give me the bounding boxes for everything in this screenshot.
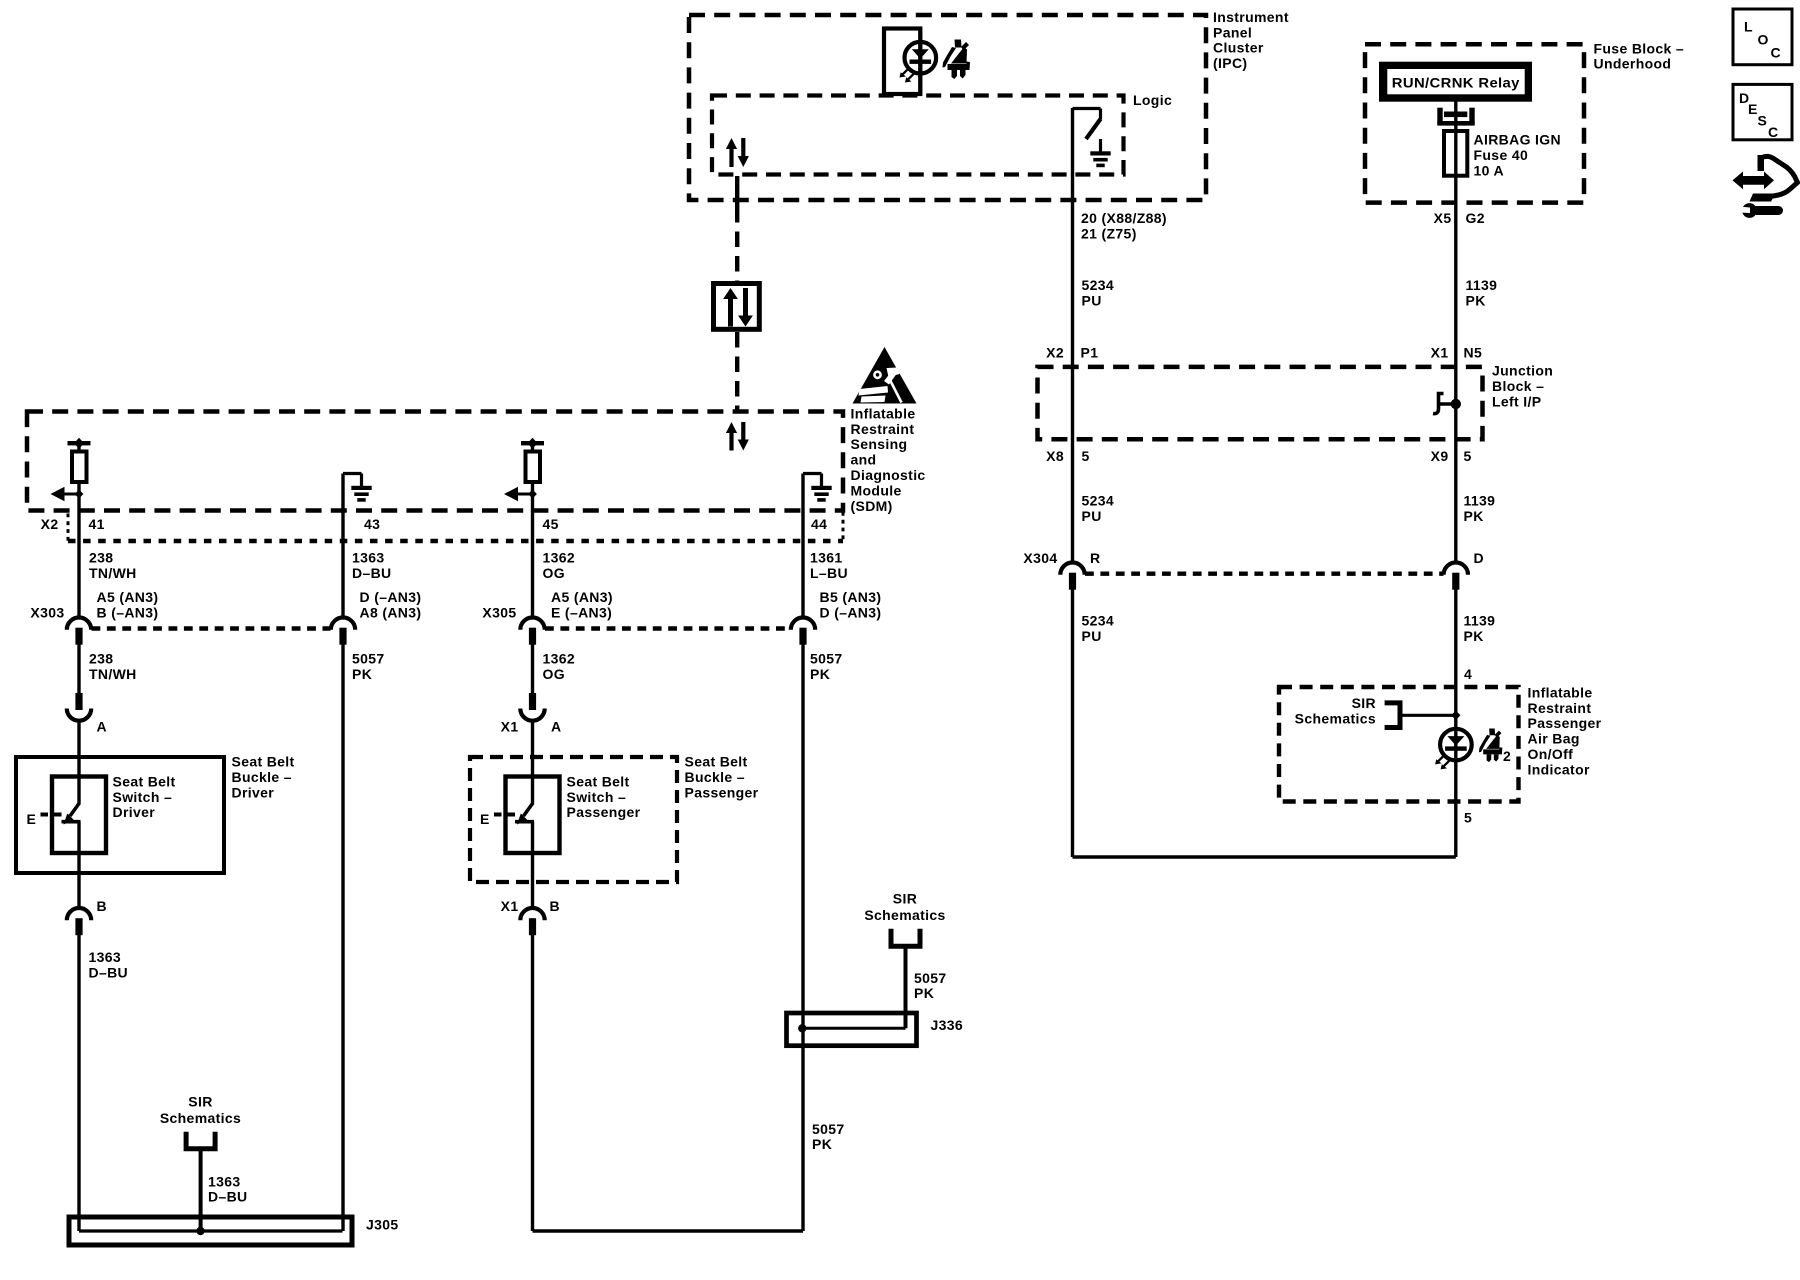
svg-text:1362: 1362 bbox=[543, 650, 576, 666]
svg-text:A: A bbox=[551, 719, 561, 735]
svg-text:E (–AN3): E (–AN3) bbox=[551, 604, 612, 620]
svg-text:Block –: Block – bbox=[1492, 378, 1544, 394]
svg-text:Buckle –: Buckle – bbox=[685, 769, 745, 785]
svg-text:PK: PK bbox=[812, 1136, 832, 1152]
svg-text:PK: PK bbox=[1466, 292, 1486, 308]
svg-text:Module: Module bbox=[851, 482, 902, 498]
svg-text:Logic: Logic bbox=[1133, 92, 1172, 108]
svg-text:OG: OG bbox=[543, 565, 565, 581]
svg-text:E: E bbox=[1748, 101, 1758, 117]
svg-text:1363: 1363 bbox=[208, 1173, 241, 1189]
svg-text:Passenger: Passenger bbox=[685, 784, 759, 800]
svg-text:1139: 1139 bbox=[1464, 612, 1496, 628]
svg-text:Schematics: Schematics bbox=[1295, 710, 1376, 726]
svg-text:PU: PU bbox=[1082, 508, 1102, 524]
svg-text:PK: PK bbox=[810, 666, 830, 682]
svg-text:R: R bbox=[1090, 550, 1100, 566]
svg-text:5234: 5234 bbox=[1082, 277, 1115, 293]
svg-text:B: B bbox=[550, 898, 560, 914]
svg-text:Passenger: Passenger bbox=[1528, 715, 1602, 731]
svg-text:Fuse 40: Fuse 40 bbox=[1474, 147, 1529, 163]
svg-text:OG: OG bbox=[543, 666, 565, 682]
svg-text:X2: X2 bbox=[41, 516, 59, 532]
svg-text:Driver: Driver bbox=[232, 784, 275, 800]
svg-text:X2: X2 bbox=[1046, 344, 1064, 360]
svg-text:1363: 1363 bbox=[89, 949, 122, 965]
svg-text:B: B bbox=[97, 898, 107, 914]
svg-text:5: 5 bbox=[1082, 448, 1090, 464]
svg-text:238: 238 bbox=[89, 549, 113, 565]
svg-text:10 A: 10 A bbox=[1474, 163, 1504, 179]
svg-text:Switch –: Switch – bbox=[567, 789, 627, 805]
svg-text:1139: 1139 bbox=[1464, 492, 1496, 508]
svg-text:X1: X1 bbox=[1431, 344, 1449, 360]
svg-text:A: A bbox=[97, 719, 107, 735]
svg-text:Switch –: Switch – bbox=[113, 789, 173, 805]
svg-text:1362: 1362 bbox=[543, 549, 576, 565]
svg-text:PU: PU bbox=[1082, 292, 1102, 308]
svg-text:C: C bbox=[1768, 124, 1778, 140]
svg-text:4: 4 bbox=[1464, 666, 1472, 682]
svg-text:L: L bbox=[1744, 19, 1753, 35]
svg-text:SIR: SIR bbox=[893, 891, 917, 907]
svg-text:X303: X303 bbox=[30, 605, 64, 621]
svg-text:X5: X5 bbox=[1434, 210, 1452, 226]
svg-text:Diagnostic: Diagnostic bbox=[851, 467, 926, 483]
svg-text:1363: 1363 bbox=[352, 549, 385, 565]
svg-text:L–BU: L–BU bbox=[810, 565, 848, 581]
svg-text:X9: X9 bbox=[1431, 448, 1449, 464]
svg-text:1361: 1361 bbox=[810, 549, 843, 565]
svg-text:5057: 5057 bbox=[810, 650, 843, 666]
svg-text:B5 (AN3): B5 (AN3) bbox=[820, 589, 882, 605]
svg-text:E: E bbox=[480, 811, 490, 827]
svg-text:21 (Z75): 21 (Z75) bbox=[1081, 225, 1137, 241]
svg-text:C: C bbox=[1771, 45, 1781, 61]
svg-text:Schematics: Schematics bbox=[864, 907, 945, 923]
svg-text:Junction: Junction bbox=[1492, 363, 1553, 379]
svg-text:Restraint: Restraint bbox=[1528, 700, 1592, 716]
svg-text:J336: J336 bbox=[931, 1017, 964, 1033]
svg-text:Sensing: Sensing bbox=[851, 436, 908, 452]
svg-text:Panel: Panel bbox=[1213, 24, 1252, 40]
svg-text:X1: X1 bbox=[501, 898, 519, 914]
svg-text:X8: X8 bbox=[1046, 448, 1064, 464]
svg-text:On/Off: On/Off bbox=[1528, 746, 1574, 762]
svg-text:238: 238 bbox=[89, 650, 113, 666]
svg-text:D–BU: D–BU bbox=[208, 1189, 248, 1205]
svg-text:G2: G2 bbox=[1466, 210, 1485, 226]
svg-text:and: and bbox=[851, 452, 877, 468]
svg-text:Inflatable: Inflatable bbox=[1528, 684, 1593, 700]
svg-text:Cluster: Cluster bbox=[1213, 40, 1264, 56]
svg-text:Seat Belt: Seat Belt bbox=[113, 773, 176, 789]
svg-text:Air Bag: Air Bag bbox=[1528, 731, 1580, 747]
svg-text:TN/WH: TN/WH bbox=[89, 666, 137, 682]
svg-text:E: E bbox=[27, 811, 37, 827]
svg-text:Driver: Driver bbox=[113, 804, 156, 820]
svg-text:45: 45 bbox=[543, 516, 559, 532]
svg-text:Instrument: Instrument bbox=[1213, 9, 1289, 25]
svg-text:X1: X1 bbox=[501, 719, 519, 735]
svg-text:A5 (AN3): A5 (AN3) bbox=[97, 589, 159, 605]
svg-text:A8 (AN3): A8 (AN3) bbox=[360, 604, 422, 620]
svg-text:Restraint: Restraint bbox=[851, 421, 915, 437]
svg-text:Schematics: Schematics bbox=[160, 1110, 241, 1126]
svg-text:SIR: SIR bbox=[1352, 695, 1376, 711]
svg-text:41: 41 bbox=[89, 516, 105, 532]
svg-text:43: 43 bbox=[364, 516, 380, 532]
svg-text:5057: 5057 bbox=[914, 970, 947, 986]
svg-text:PK: PK bbox=[1464, 628, 1484, 644]
svg-text:D–BU: D–BU bbox=[89, 965, 129, 981]
svg-text:D: D bbox=[1474, 550, 1484, 566]
svg-text:2: 2 bbox=[1503, 748, 1511, 764]
svg-text:Seat Belt: Seat Belt bbox=[232, 754, 295, 770]
svg-text:1139: 1139 bbox=[1466, 277, 1498, 293]
svg-text:44: 44 bbox=[811, 516, 827, 532]
svg-text:P1: P1 bbox=[1081, 344, 1099, 360]
svg-text:Seat Belt: Seat Belt bbox=[685, 754, 748, 770]
svg-text:Fuse Block –: Fuse Block – bbox=[1594, 40, 1685, 56]
svg-text:Left I/P: Left I/P bbox=[1492, 394, 1541, 410]
svg-text:D–BU: D–BU bbox=[352, 565, 392, 581]
svg-text:Seat Belt: Seat Belt bbox=[567, 773, 630, 789]
svg-text:RUN/CRNK Relay: RUN/CRNK Relay bbox=[1392, 75, 1520, 91]
svg-text:B (–AN3): B (–AN3) bbox=[97, 604, 159, 620]
svg-text:O: O bbox=[1758, 32, 1769, 48]
svg-text:Indicator: Indicator bbox=[1528, 761, 1590, 777]
svg-text:5234: 5234 bbox=[1082, 612, 1115, 628]
svg-text:D (–AN3): D (–AN3) bbox=[820, 604, 882, 620]
svg-text:N5: N5 bbox=[1464, 344, 1483, 360]
svg-text:(SDM): (SDM) bbox=[851, 498, 893, 514]
svg-text:5057: 5057 bbox=[352, 650, 385, 666]
svg-text:PU: PU bbox=[1082, 628, 1102, 644]
svg-text:X304: X304 bbox=[1023, 550, 1057, 566]
svg-text:X305: X305 bbox=[482, 605, 516, 621]
svg-text:D (–AN3): D (–AN3) bbox=[360, 589, 422, 605]
svg-text:5234: 5234 bbox=[1082, 492, 1115, 508]
svg-text:Buckle –: Buckle – bbox=[232, 769, 292, 785]
svg-text:PK: PK bbox=[1464, 508, 1484, 524]
svg-text:J305: J305 bbox=[366, 1217, 399, 1233]
svg-text:Passenger: Passenger bbox=[567, 804, 641, 820]
svg-text:S: S bbox=[1758, 113, 1768, 129]
svg-text:(IPC): (IPC) bbox=[1213, 55, 1247, 71]
svg-text:A5 (AN3): A5 (AN3) bbox=[551, 589, 613, 605]
svg-text:PK: PK bbox=[914, 985, 934, 1001]
svg-text:20 (X88/Z88): 20 (X88/Z88) bbox=[1081, 210, 1167, 226]
svg-text:5057: 5057 bbox=[812, 1121, 845, 1137]
svg-text:5: 5 bbox=[1464, 810, 1472, 826]
svg-text:SIR: SIR bbox=[188, 1094, 212, 1110]
svg-text:Inflatable: Inflatable bbox=[851, 405, 916, 421]
svg-text:TN/WH: TN/WH bbox=[89, 565, 137, 581]
svg-text:PK: PK bbox=[352, 666, 372, 682]
svg-text:AIRBAG IGN: AIRBAG IGN bbox=[1474, 132, 1562, 148]
svg-text:5: 5 bbox=[1464, 448, 1472, 464]
svg-text:Underhood: Underhood bbox=[1594, 56, 1672, 72]
